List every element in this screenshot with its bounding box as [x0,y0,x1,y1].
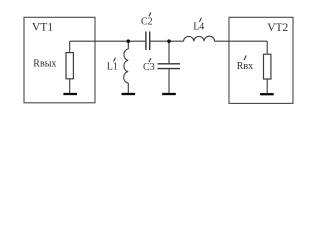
svg-text:L1: L1 [107,61,118,72]
svg-text:C2: C2 [141,16,153,27]
svg-text:Rвых: Rвых [33,59,56,70]
svg-text:Rвх: Rвх [237,61,253,72]
svg-text:VT2: VT2 [267,22,288,34]
svg-text:VT1: VT1 [32,22,53,34]
svg-text:L4: L4 [193,22,204,33]
svg-text:C3: C3 [143,62,155,73]
